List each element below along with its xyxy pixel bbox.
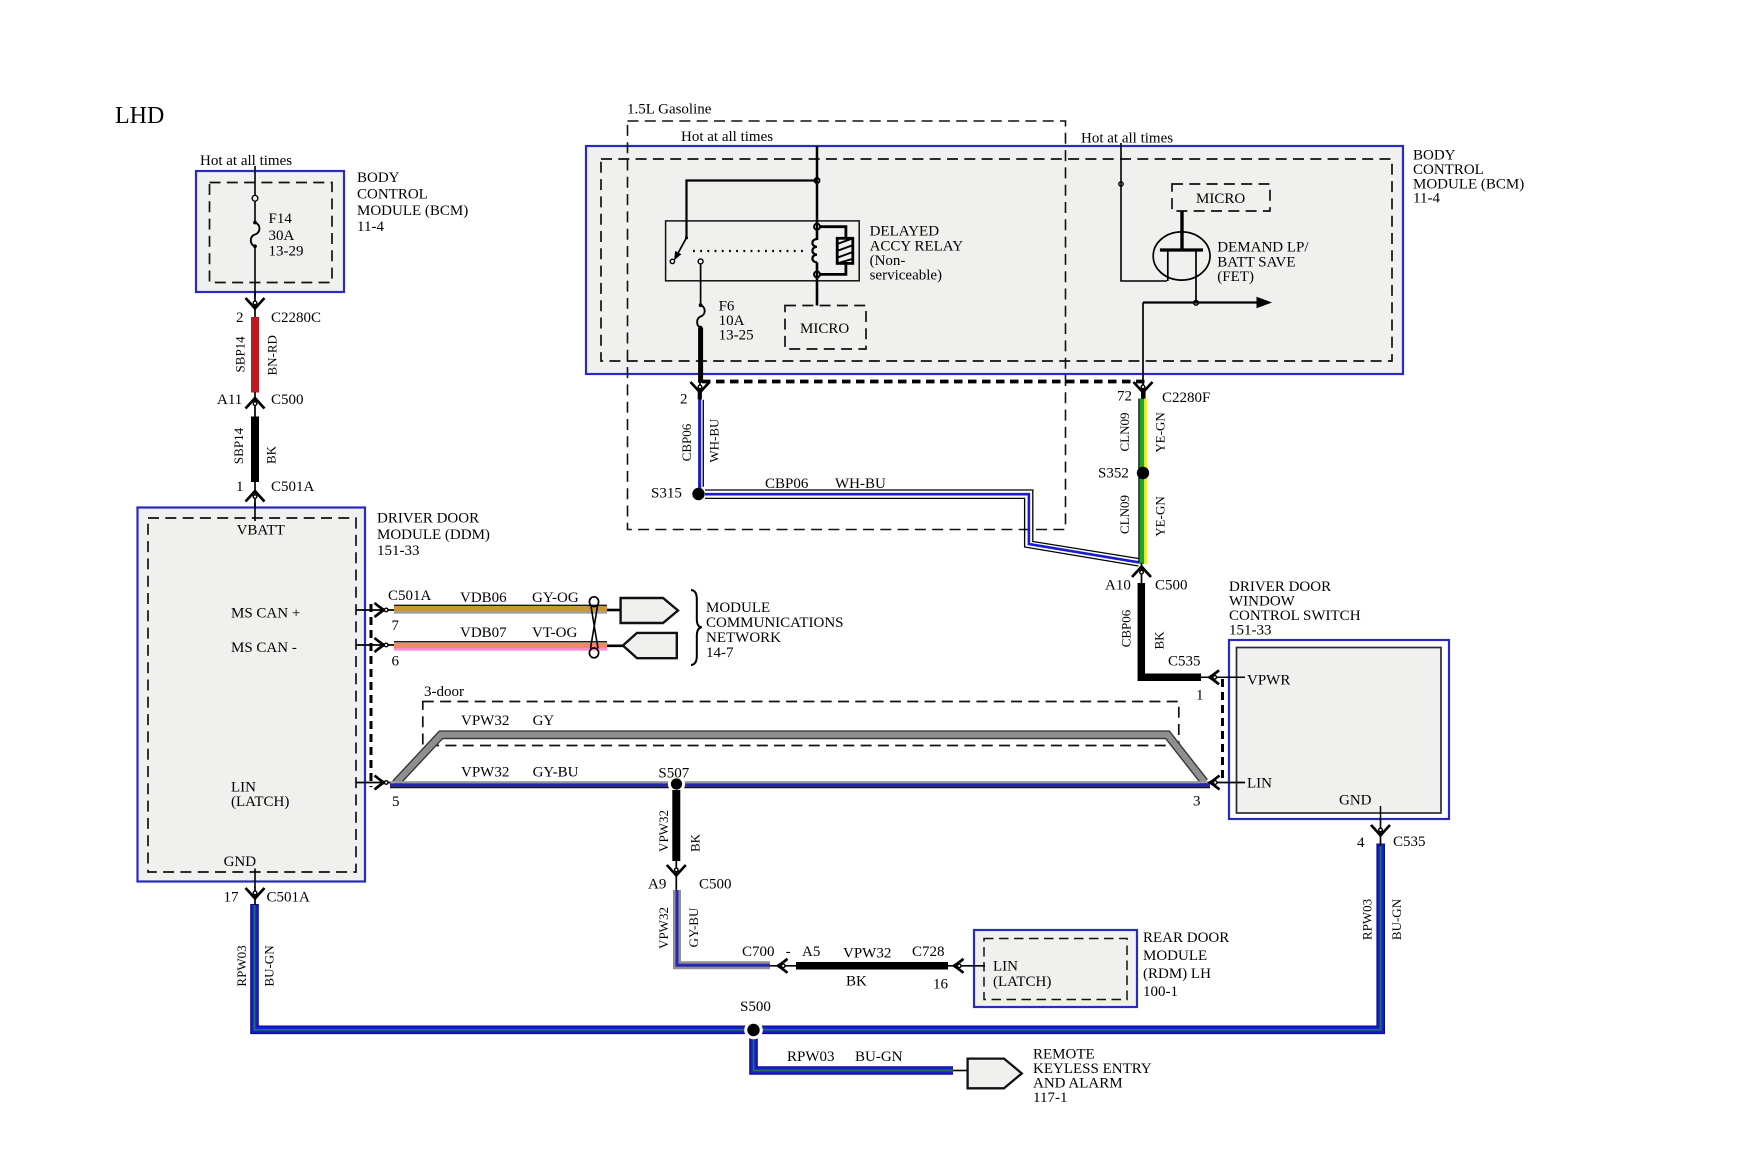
svg-text:1: 1 (236, 479, 244, 495)
svg-text:CLN09: CLN09 (1117, 495, 1132, 534)
svg-text:Hot at all times: Hot at all times (1081, 131, 1173, 147)
svg-text:DELAYED: DELAYED (870, 224, 940, 240)
svg-text:C2280F: C2280F (1162, 390, 1210, 406)
svg-text:7: 7 (392, 618, 400, 634)
svg-text:C700 - A5: C700 - A5 (742, 944, 820, 960)
svg-text:CONTROL: CONTROL (357, 187, 428, 203)
svg-text:MODULE: MODULE (706, 600, 770, 616)
svg-text:(LATCH): (LATCH) (993, 974, 1051, 990)
svg-text:LHD: LHD (115, 103, 164, 129)
svg-text:11-4: 11-4 (1413, 191, 1440, 207)
svg-text:14-7: 14-7 (706, 645, 734, 661)
svg-text:2: 2 (680, 392, 688, 408)
svg-text:serviceable): serviceable) (870, 268, 942, 284)
svg-text:MS CAN +: MS CAN + (231, 606, 300, 622)
svg-text:MICRO: MICRO (800, 321, 849, 337)
svg-text:C500: C500 (1155, 578, 1188, 594)
svg-text:C535: C535 (1168, 654, 1201, 670)
svg-text:GY-BU: GY-BU (533, 765, 579, 781)
svg-text:C728: C728 (912, 944, 945, 960)
svg-text:CBP06: CBP06 (679, 423, 694, 461)
svg-text:BN-RD: BN-RD (264, 335, 279, 375)
svg-text:16: 16 (933, 977, 949, 993)
svg-text:(FET): (FET) (1217, 269, 1254, 285)
svg-text:VT-OG: VT-OG (532, 625, 577, 641)
svg-text:VDB07: VDB07 (460, 625, 507, 641)
svg-text:DEMAND LP/: DEMAND LP/ (1217, 240, 1309, 256)
svg-text:VPW32: VPW32 (461, 713, 509, 729)
svg-text:A10: A10 (1105, 578, 1131, 594)
svg-text:5: 5 (392, 794, 400, 810)
svg-text:MS CAN -: MS CAN - (231, 640, 297, 656)
svg-text:BATT SAVE: BATT SAVE (1217, 254, 1295, 270)
svg-text:MODULE (BCM): MODULE (BCM) (357, 203, 468, 219)
svg-text:CBP06: CBP06 (765, 476, 809, 492)
svg-text:A11: A11 (217, 392, 242, 408)
svg-text:WH-BU: WH-BU (835, 476, 886, 492)
svg-text:Hot at all times: Hot at all times (200, 153, 292, 169)
svg-text:1: 1 (1196, 688, 1204, 704)
svg-text:VBATT: VBATT (237, 523, 285, 539)
svg-text:S315: S315 (651, 486, 682, 502)
svg-text:BK: BK (264, 445, 279, 464)
svg-text:SBP14: SBP14 (232, 336, 247, 373)
svg-text:BK: BK (1152, 631, 1167, 650)
svg-text:REAR DOOR: REAR DOOR (1143, 930, 1229, 946)
svg-text:C501A: C501A (388, 588, 432, 604)
svg-text:GND: GND (1339, 793, 1372, 809)
svg-text:RPW03: RPW03 (234, 945, 249, 986)
svg-text:VPW32: VPW32 (461, 765, 509, 781)
svg-text:C500: C500 (699, 877, 732, 893)
svg-text:BU-GN: BU-GN (855, 1049, 903, 1065)
svg-text:MODULE (DDM): MODULE (DDM) (377, 527, 490, 543)
svg-text:LIN: LIN (993, 959, 1018, 975)
svg-text:S500: S500 (740, 999, 771, 1015)
svg-text:YE-GN: YE-GN (1153, 496, 1168, 537)
svg-text:4: 4 (1357, 835, 1365, 851)
svg-text:72: 72 (1117, 389, 1132, 405)
svg-text:VPW32: VPW32 (656, 810, 671, 852)
svg-text:MODULE: MODULE (1143, 948, 1207, 964)
svg-text:151-33: 151-33 (1229, 623, 1272, 639)
svg-text:BU-GN: BU-GN (262, 945, 277, 987)
svg-text:LIN: LIN (1247, 776, 1272, 792)
svg-text:CONTROL: CONTROL (1413, 162, 1484, 178)
svg-text:30A: 30A (269, 228, 295, 244)
svg-text:NETWORK: NETWORK (706, 630, 781, 646)
svg-text:S507: S507 (658, 766, 689, 782)
svg-text:GY: GY (533, 713, 555, 729)
svg-text:VPWR: VPWR (1247, 673, 1290, 689)
svg-text:GND: GND (224, 854, 257, 870)
svg-text:3: 3 (1193, 794, 1201, 810)
svg-text:ACCY RELAY: ACCY RELAY (870, 238, 964, 254)
svg-text:13-25: 13-25 (719, 327, 754, 343)
svg-text:S352: S352 (1098, 466, 1129, 482)
svg-text:17: 17 (224, 890, 240, 906)
svg-text:(LATCH): (LATCH) (231, 794, 289, 810)
svg-text:1.5L Gasoline: 1.5L Gasoline (627, 102, 712, 118)
svg-text:A9: A9 (648, 877, 666, 893)
svg-text:C2280C: C2280C (271, 310, 321, 326)
svg-text:CBP06: CBP06 (1119, 609, 1134, 647)
svg-text:WH-BU: WH-BU (707, 418, 722, 463)
svg-text:13-29: 13-29 (269, 244, 304, 260)
svg-text:RPW03: RPW03 (787, 1049, 835, 1065)
svg-text:151-33: 151-33 (377, 543, 420, 559)
svg-text:SBP14: SBP14 (231, 427, 246, 464)
svg-text:VPW32: VPW32 (843, 946, 891, 962)
svg-text:2: 2 (236, 310, 244, 326)
svg-text:117-1: 117-1 (1033, 1090, 1067, 1106)
svg-text:6: 6 (392, 654, 400, 670)
svg-text:3-door: 3-door (424, 684, 464, 700)
svg-text:C500: C500 (271, 392, 304, 408)
svg-text:C501A: C501A (271, 479, 315, 495)
svg-text:(RDM) LH: (RDM) LH (1143, 966, 1211, 982)
svg-text:RPW03: RPW03 (1360, 899, 1375, 940)
svg-text:VPW32: VPW32 (656, 907, 671, 949)
svg-text:CLN09: CLN09 (1117, 413, 1132, 452)
svg-text:BU-GN: BU-GN (1389, 898, 1404, 940)
svg-text:11-4: 11-4 (357, 219, 384, 235)
svg-text:DRIVER DOOR: DRIVER DOOR (377, 511, 479, 527)
svg-text:C501A: C501A (267, 890, 311, 906)
svg-text:MICRO: MICRO (1196, 191, 1245, 207)
svg-text:COMMUNICATIONS: COMMUNICATIONS (706, 615, 844, 631)
svg-text:BK: BK (846, 974, 867, 990)
svg-text:F14: F14 (269, 211, 293, 227)
svg-text:GY-BU: GY-BU (686, 907, 701, 947)
svg-text:BK: BK (688, 833, 703, 852)
svg-text:GY-OG: GY-OG (532, 590, 579, 606)
svg-text:VDB06: VDB06 (460, 590, 507, 606)
svg-text:YE-GN: YE-GN (1153, 412, 1168, 453)
svg-text:C535: C535 (1393, 834, 1426, 850)
svg-text:100-1: 100-1 (1143, 984, 1178, 1000)
svg-text:BODY: BODY (357, 170, 400, 186)
svg-text:Hot at all times: Hot at all times (681, 129, 773, 145)
